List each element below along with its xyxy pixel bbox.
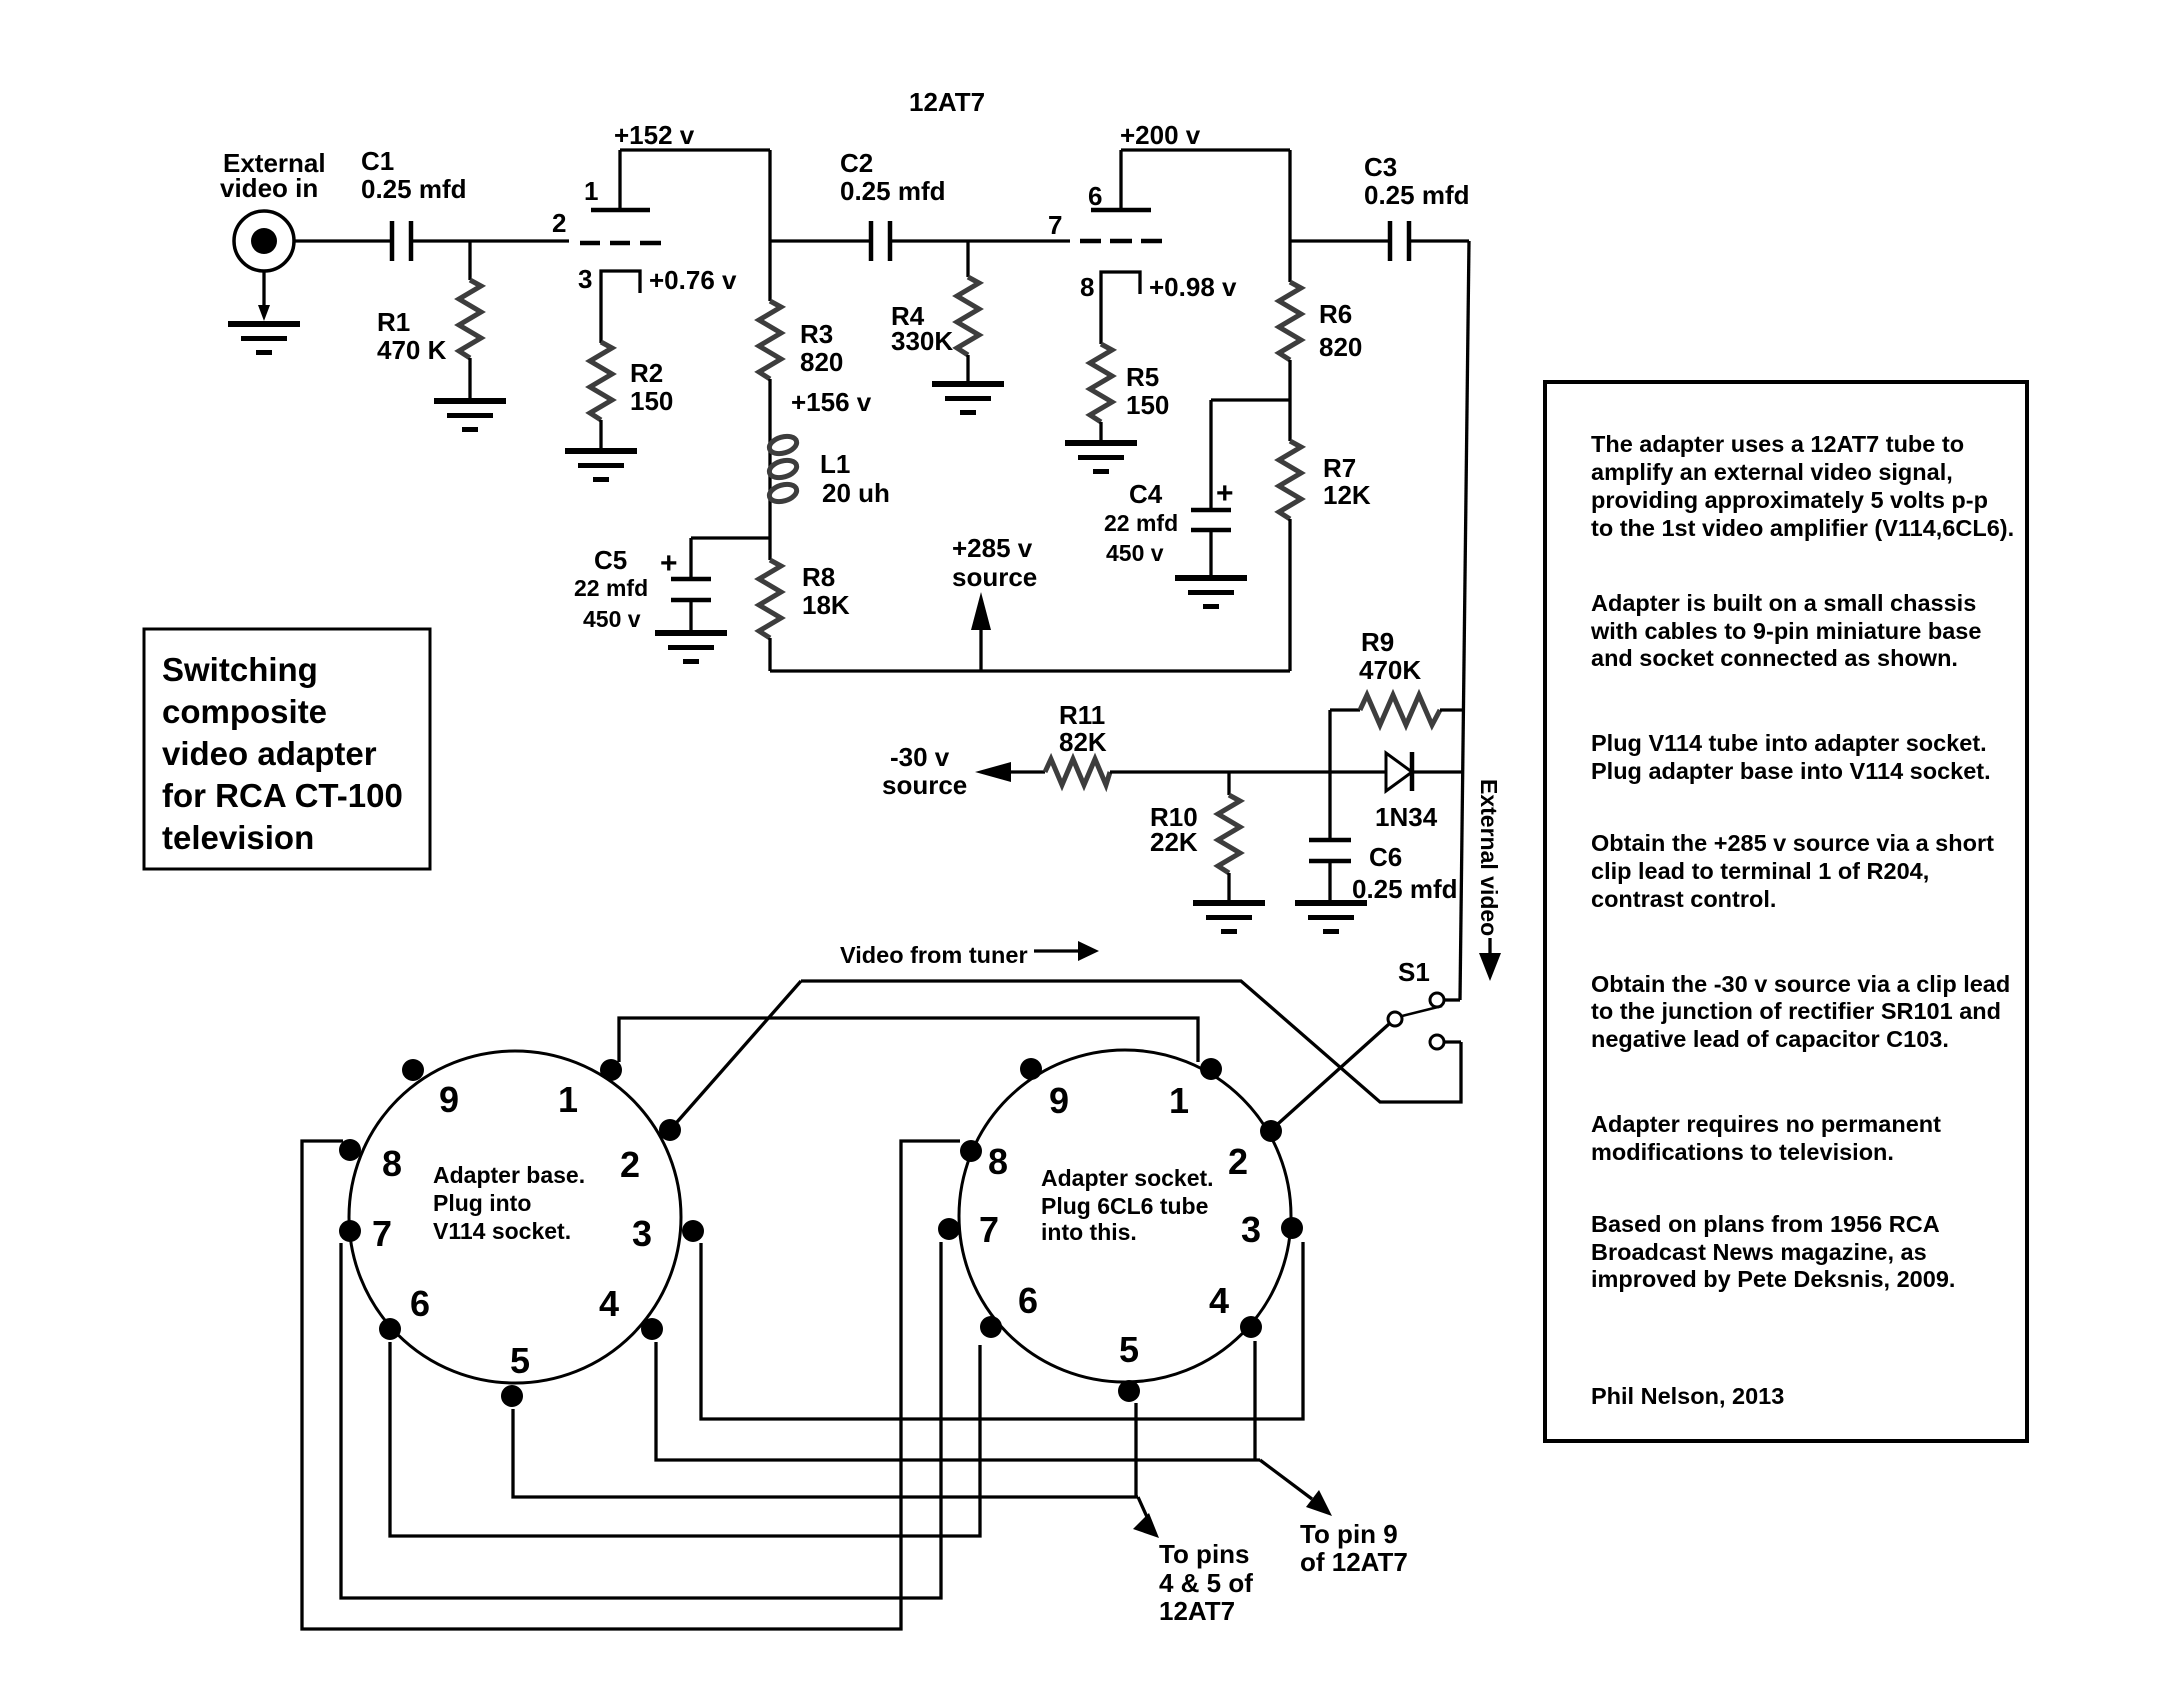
- wire S1 pole to adapter socket pin 2: [1270, 1024, 1389, 1131]
- resistor R2 150: [590, 342, 673, 420]
- svg-text:R2: R2: [630, 358, 663, 388]
- capacitor C5 22 mfd 450 v: [574, 538, 711, 632]
- svg-text:composite: composite: [162, 693, 327, 730]
- wire R8 to bottom rail: [768, 638, 771, 671]
- wire R2 to ground: [599, 420, 602, 448]
- connector J1 RCA jack "External video in": [234, 211, 294, 271]
- wire junction to C4: [1211, 398, 1290, 401]
- grid dashes pin 7: [1080, 239, 1162, 244]
- svg-text:Based on plans from 1956 RCA: Based on plans from 1956 RCA: [1591, 1211, 1940, 1237]
- adapter base pin 7 dot: [339, 1220, 361, 1242]
- svg-text:and socket connected as shown.: and socket connected as shown.: [1591, 645, 1958, 671]
- wire R6 to R7 junction: [1288, 360, 1291, 441]
- capacitor C2 0.25 mfd: [840, 148, 946, 261]
- tube socket: adapter socket circle: [959, 1050, 1291, 1382]
- ground (C5): [655, 630, 727, 664]
- wire R10 to ground: [1227, 873, 1230, 900]
- svg-text:into this.: into this.: [1041, 1219, 1137, 1245]
- svg-text:5: 5: [1119, 1329, 1139, 1370]
- svg-text:4 & 5 of: 4 & 5 of: [1159, 1568, 1253, 1598]
- wire R9 left lead down to -30v line: [1328, 710, 1331, 772]
- wire L1 down to cathode circuit bottom rail: [768, 505, 771, 560]
- svg-text:1: 1: [584, 176, 598, 206]
- svg-text:Plug adapter base into V114 so: Plug adapter base into V114 socket.: [1591, 758, 1991, 784]
- svg-text:External video: External video: [1476, 779, 1502, 936]
- capacitor C3 0.25 mfd: [1364, 152, 1470, 261]
- adapter base text: [433, 1162, 585, 1244]
- wire arrow to pin 9 of 12AT7: [1260, 1460, 1408, 1577]
- svg-text:Switching: Switching: [162, 651, 318, 688]
- svg-text:22 mfd: 22 mfd: [574, 575, 648, 601]
- resistor R1 470 K: [377, 280, 481, 365]
- adapter socket pin 4 dot: [1240, 1316, 1262, 1338]
- svg-text:1: 1: [558, 1079, 578, 1120]
- node -30 v source arrow: [882, 742, 1045, 800]
- adapter socket pin 1 dot: [1200, 1058, 1222, 1080]
- svg-text:Obtain the +285 v source via a: Obtain the +285 v source via a short: [1591, 830, 1994, 856]
- svg-text:470 K: 470 K: [377, 335, 447, 365]
- ground (R10): [1193, 900, 1265, 934]
- plate lead up to +200v rail: [1119, 150, 1122, 210]
- svg-text:Phil Nelson, 2013: Phil Nelson, 2013: [1591, 1383, 1784, 1409]
- title box: [144, 629, 430, 869]
- plate bar pin 6: [1091, 208, 1151, 213]
- svg-text:0.25 mfd: 0.25 mfd: [1352, 874, 1458, 904]
- svg-text:amplify an external video sign: amplify an external video signal,: [1591, 459, 1953, 485]
- ground (C4): [1175, 575, 1247, 609]
- S1 blade: [1402, 1006, 1442, 1016]
- wire base pin 3 to socket pin 3 bus: [701, 1242, 1303, 1419]
- adapter base pin 2 dot: [659, 1119, 681, 1141]
- capacitor C6 0.25 mfd: [1309, 840, 1458, 904]
- svg-text:12K: 12K: [1323, 480, 1371, 510]
- svg-text:5: 5: [510, 1340, 530, 1381]
- svg-text:150: 150: [1126, 390, 1169, 420]
- svg-text:820: 820: [1319, 332, 1362, 362]
- wire jack shield to ground: [258, 271, 270, 321]
- wire junction to C5: [691, 536, 770, 539]
- adapter socket pin 3 dot: [1281, 1217, 1303, 1239]
- svg-text:450 v: 450 v: [583, 606, 641, 632]
- svg-text:450 v: 450 v: [1106, 540, 1164, 566]
- plate bar pin 1: [591, 208, 650, 213]
- adapter base pin 4 dot: [641, 1318, 663, 1340]
- svg-text:2: 2: [552, 208, 566, 238]
- svg-text:22K: 22K: [1150, 827, 1198, 857]
- svg-text:source: source: [882, 770, 967, 800]
- svg-text:+: +: [660, 547, 678, 580]
- svg-text:82K: 82K: [1059, 727, 1107, 757]
- resistor R6 820: [1279, 282, 1362, 362]
- svg-text:+0.76 v: +0.76 v: [649, 265, 737, 295]
- svg-text:+200 v: +200 v: [1120, 120, 1201, 150]
- wire +152v rail: [620, 148, 770, 151]
- cathode bracket pin 8: [1101, 272, 1140, 344]
- svg-text:Adapter base.: Adapter base.: [433, 1162, 585, 1188]
- svg-text:with cables to 9-pin miniature: with cables to 9-pin miniature base: [1590, 618, 1981, 644]
- wire junction down to R4: [966, 241, 969, 277]
- svg-text:R5: R5: [1126, 362, 1159, 392]
- svg-text:6: 6: [410, 1283, 430, 1324]
- svg-text:2: 2: [620, 1144, 640, 1185]
- svg-text:S1: S1: [1398, 957, 1430, 987]
- svg-text:clip lead to terminal 1 of R2: clip lead to terminal 1 of R204,: [1591, 858, 1929, 884]
- wire base pin 6 to socket pin 6 bus: [390, 1342, 980, 1536]
- svg-text:Broadcast News magazine, as: Broadcast News magazine, as: [1591, 1239, 1927, 1265]
- svg-text:7: 7: [979, 1209, 999, 1250]
- adapter base pin 9 dot: [402, 1059, 424, 1081]
- resistor R10 22K: [1150, 795, 1240, 873]
- svg-text:0.25 mfd: 0.25 mfd: [1364, 180, 1470, 210]
- wire R7 to bottom rail: [1288, 519, 1291, 671]
- wire R4 to ground: [966, 355, 969, 381]
- svg-text:8: 8: [382, 1143, 402, 1184]
- capacitor C1 0.25 mfd: [361, 146, 467, 261]
- svg-text:20 uh: 20 uh: [822, 478, 890, 508]
- svg-text:Adapter requires no permanent: Adapter requires no permanent: [1591, 1111, 1941, 1137]
- ground (R5): [1065, 440, 1137, 474]
- svg-text:C3: C3: [1364, 152, 1397, 182]
- wire R3 to L1: [768, 379, 771, 430]
- cathode bracket pin 3: [601, 271, 640, 343]
- S1 throw contact top: [1430, 993, 1444, 1007]
- svg-text:to the junction of rectifier S: to the junction of rectifier SR101 and: [1591, 998, 2001, 1024]
- wire rail down to node and R6: [1288, 150, 1291, 282]
- svg-text:to the 1st video amplifier (V1: to the 1st video amplifier (V114,6CL6).: [1591, 515, 2014, 541]
- diode D1 1N34: [1375, 752, 1463, 832]
- svg-text:0.25 mfd: 0.25 mfd: [361, 174, 467, 204]
- svg-text:Video from tuner: Video from tuner: [840, 942, 1028, 968]
- svg-text:12AT7: 12AT7: [909, 87, 985, 117]
- adapter socket pin 6 dot: [980, 1316, 1002, 1338]
- wire C2 to grid pin 7: [890, 239, 1070, 242]
- svg-text:18K: 18K: [802, 590, 850, 620]
- node +285 v source arrow: [952, 533, 1037, 671]
- svg-text:C6: C6: [1369, 842, 1402, 872]
- adapter socket pin 5 dot: [1118, 1380, 1140, 1402]
- svg-text:6: 6: [1018, 1280, 1038, 1321]
- ground (C6): [1295, 900, 1367, 934]
- svg-text:Adapter socket.: Adapter socket.: [1041, 1165, 1214, 1191]
- inductor L1 20 uh: [767, 430, 890, 508]
- resistor R7 12K: [1279, 441, 1371, 519]
- adapter base pin 8 dot: [339, 1139, 361, 1161]
- wire junction down to R1: [468, 241, 471, 280]
- svg-text:3: 3: [578, 264, 592, 294]
- svg-text:4: 4: [1209, 1280, 1229, 1321]
- wire bottom rail: [770, 669, 1290, 672]
- node: External video in label: [220, 148, 326, 203]
- ground (R1): [434, 398, 506, 432]
- svg-text:V114 socket.: V114 socket.: [433, 1218, 571, 1244]
- wire R5 to ground: [1099, 422, 1102, 440]
- svg-text:R8: R8: [802, 562, 835, 592]
- resistor R4 330K: [891, 277, 979, 356]
- svg-text:C4: C4: [1129, 479, 1163, 509]
- adapter base pin 5 dot: [501, 1385, 523, 1407]
- resistor R11 82K: [1045, 700, 1110, 785]
- ground (jack): [228, 321, 300, 355]
- svg-text:+: +: [1216, 477, 1234, 510]
- svg-text:150: 150: [630, 386, 673, 416]
- capacitor C4 22 mfd 450 v: [1104, 400, 1234, 575]
- wire S1 bottom throw loop to video-from-tuner line: [801, 981, 1461, 1102]
- svg-text:R9: R9: [1361, 627, 1394, 657]
- svg-text:3: 3: [632, 1213, 652, 1254]
- adapter socket pin 2 dot: [1260, 1120, 1282, 1142]
- svg-text:contrast control.: contrast control.: [1591, 886, 1776, 912]
- svg-text:+0.98 v: +0.98 v: [1149, 272, 1237, 302]
- svg-text:7: 7: [1048, 210, 1062, 240]
- wire junction down to R10: [1227, 772, 1230, 795]
- wire node to C2: [770, 239, 871, 242]
- svg-text:2: 2: [1228, 1141, 1248, 1182]
- adapter base pin 3 dot: [682, 1220, 704, 1242]
- wire adapter base pin 1 to adapter socket pin 1: [619, 1018, 1198, 1062]
- wire C3 right to external video line: [1409, 239, 1469, 242]
- svg-text:negative lead of capacitor C10: negative lead of capacitor C103.: [1591, 1026, 1949, 1052]
- svg-text:L1: L1: [820, 449, 850, 479]
- svg-text:-30 v: -30 v: [890, 742, 950, 772]
- switch S1: [1388, 957, 1461, 1049]
- adapter base pin 1 dot: [600, 1059, 622, 1081]
- wire socket pin 4 drop: [1253, 1341, 1256, 1460]
- resistor R9 470K: [1330, 627, 1463, 725]
- svg-text:1N34: 1N34: [1375, 802, 1438, 832]
- tube socket: adapter base circle: [349, 1051, 681, 1383]
- svg-text:1: 1: [1169, 1080, 1189, 1121]
- adapter base pin numbers: [372, 1079, 652, 1381]
- plate lead up to +152v rail: [618, 150, 621, 210]
- node Video from tuner label with arrow: [840, 941, 1099, 968]
- ground (R4): [932, 381, 1004, 415]
- wire base pin 5 and socket pin 5 to pins 4 and 5 of 12AT7: [513, 1409, 1138, 1497]
- node External video rotated label with arrow: [1476, 779, 1502, 981]
- svg-text:8: 8: [988, 1141, 1008, 1182]
- svg-text:8: 8: [1080, 272, 1094, 302]
- wire jack to C1: [294, 239, 392, 242]
- svg-text:0.25 mfd: 0.25 mfd: [840, 176, 946, 206]
- svg-text:The adapter uses a 12AT7 tube: The adapter uses a 12AT7 tube to: [1591, 431, 1964, 457]
- svg-text:R3: R3: [800, 319, 833, 349]
- svg-text:modifications to television.: modifications to television.: [1591, 1139, 1894, 1165]
- svg-text:6: 6: [1088, 181, 1102, 211]
- svg-text:22 mfd: 22 mfd: [1104, 510, 1178, 536]
- wire node to C3: [1290, 239, 1390, 242]
- svg-text:R1: R1: [377, 307, 410, 337]
- svg-text:Plug into: Plug into: [433, 1190, 531, 1216]
- wire base pin 7 to socket pin 7 bus: [341, 1242, 941, 1598]
- svg-text:Plug 6CL6 tube: Plug 6CL6 tube: [1041, 1193, 1208, 1219]
- svg-text:To pins: To pins: [1159, 1539, 1250, 1569]
- svg-text:Adapter is built on a small ch: Adapter is built on a small chassis: [1591, 590, 1976, 616]
- adapter socket pin 9 dot: [1020, 1058, 1042, 1080]
- wire external video vertical line: [1460, 241, 1469, 1000]
- tube U1A 12AT7 triode section pins 1,2,3: [552, 150, 661, 343]
- ground (R2): [565, 448, 637, 482]
- wire base pin 4 and socket pin 4 to pin 9 of 12AT7: [656, 1342, 1260, 1460]
- svg-text:12AT7: 12AT7: [1159, 1596, 1235, 1626]
- wire C1 to grid pin 2: [411, 239, 569, 242]
- svg-text:C1: C1: [361, 146, 394, 176]
- svg-text:+152 v: +152 v: [614, 120, 695, 150]
- svg-text:To pin 9: To pin 9: [1300, 1519, 1398, 1549]
- adapter base pin 6 dot: [379, 1318, 401, 1340]
- svg-text:4: 4: [599, 1283, 619, 1324]
- S1 throw contact bottom: [1430, 1035, 1444, 1049]
- adapter socket pin 8 dot: [960, 1140, 982, 1162]
- svg-text:9: 9: [439, 1079, 459, 1120]
- svg-text:for RCA CT-100: for RCA CT-100: [162, 777, 403, 814]
- svg-text:C2: C2: [840, 148, 873, 178]
- svg-text:Obtain the -30 v source via a: Obtain the -30 v source via a clip lead: [1591, 971, 2010, 997]
- svg-text:video in: video in: [220, 173, 318, 203]
- resistor R8 18K: [759, 560, 850, 638]
- wire socket pin 5 drop: [1134, 1403, 1137, 1497]
- svg-text:+285 v: +285 v: [952, 533, 1033, 563]
- svg-text:R7: R7: [1323, 453, 1356, 483]
- adapter socket pin 7 dot: [938, 1218, 960, 1240]
- svg-text:of 12AT7: of 12AT7: [1300, 1547, 1408, 1577]
- wire base pin 8 to socket pin 8 bus: [302, 1141, 960, 1629]
- resistor R3 820: [759, 301, 843, 379]
- svg-text:330K: 330K: [891, 326, 953, 356]
- wire +200v rail: [1121, 148, 1290, 151]
- resistor R5 150: [1090, 344, 1169, 422]
- wire R1 to ground: [468, 358, 471, 398]
- adapter socket pin numbers: [979, 1080, 1261, 1370]
- svg-text:video adapter: video adapter: [162, 735, 377, 772]
- svg-text:470K: 470K: [1359, 655, 1421, 685]
- svg-text:R6: R6: [1319, 299, 1352, 329]
- S1 pole contact: [1388, 1012, 1402, 1026]
- svg-text:Plug V114 tube into adapter so: Plug V114 tube into adapter socket.: [1591, 730, 1987, 756]
- grid dashes pin 2: [580, 241, 661, 246]
- svg-text:R11: R11: [1059, 700, 1105, 730]
- wire video from tuner line to adapter base pin 2: [670, 981, 801, 1130]
- svg-text:3: 3: [1241, 1209, 1261, 1250]
- svg-text:9: 9: [1049, 1080, 1069, 1121]
- wire arrow to pins 4 and 5 of 12AT7: [1133, 1497, 1253, 1626]
- svg-text:improved by Pete Deksnis, 2009: improved by Pete Deksnis, 2009.: [1591, 1266, 1955, 1292]
- adapter socket text: [1041, 1165, 1214, 1245]
- svg-text:820: 820: [800, 347, 843, 377]
- notes box: [1545, 382, 2027, 1441]
- svg-text:source: source: [952, 562, 1037, 592]
- svg-text:television: television: [162, 819, 314, 856]
- tube U1B 12AT7 triode section pins 6,7,8: [1048, 150, 1162, 344]
- svg-text:+156 v: +156 v: [791, 387, 872, 417]
- wire -30v line to diode: [1110, 770, 1386, 773]
- wire junction down to C6: [1328, 772, 1331, 840]
- wire plate rail down through node to R3: [768, 150, 771, 301]
- svg-text:providing approximately 5 volt: providing approximately 5 volts p-p: [1591, 487, 1988, 513]
- svg-text:7: 7: [372, 1213, 392, 1254]
- svg-text:C5: C5: [594, 545, 627, 575]
